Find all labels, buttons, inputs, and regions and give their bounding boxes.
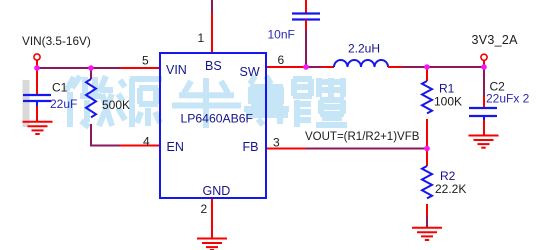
glyph 源 — [118, 79, 162, 127]
capacitor C3 10nF — [292, 0, 320, 30]
ground (IC GND pin) — [197, 239, 227, 250]
pin 2 GND — [211, 198, 213, 238]
ground (C1) — [23, 122, 53, 134]
node VOUT terminal junction — [481, 64, 487, 70]
svg-text:SW: SW — [240, 65, 260, 79]
node VIN junction — [34, 65, 40, 71]
svg-text:4: 4 — [143, 135, 150, 149]
glyph 體 — [293, 78, 347, 127]
terminal VIN circle — [34, 54, 40, 60]
svg-text:3V3_2A: 3V3_2A — [472, 33, 519, 47]
wire C3 bottom lead to SW node — [305, 30, 307, 67]
3V3 terminal lead — [483, 60, 485, 67]
pin 4 EN — [120, 145, 160, 147]
svg-text:22.2K: 22.2K — [435, 182, 466, 196]
svg-text:2: 2 — [201, 202, 208, 216]
resistor R1 — [422, 67, 432, 149]
svg-text:GND: GND — [203, 184, 231, 198]
inductor L1 2.2uH — [321, 60, 402, 67]
svg-text:R2: R2 — [440, 169, 456, 183]
wire R2 bottom to ground — [426, 217, 428, 228]
watermark fragment (gray bar) — [23, 80, 30, 127]
node VOUT-R1 junction — [424, 64, 430, 70]
svg-text:10nF: 10nF — [268, 28, 295, 42]
svg-text:1: 1 — [198, 31, 205, 45]
svg-text:100K: 100K — [434, 95, 462, 109]
pin 3 FB — [266, 148, 306, 150]
wire BS top — [211, 0, 213, 13]
svg-text:LP6460AB6F: LP6460AB6F — [181, 112, 254, 126]
node EN junction — [88, 65, 94, 71]
svg-text:R1: R1 — [439, 82, 455, 96]
svg-text:22uFx 2: 22uFx 2 — [486, 92, 530, 106]
node FB junction — [424, 146, 430, 152]
node SW junction — [303, 64, 309, 70]
svg-text:VIN(3.5-16V): VIN(3.5-16V) — [22, 34, 91, 48]
svg-text:5: 5 — [142, 54, 149, 68]
svg-text:EN: EN — [167, 140, 184, 154]
glyph 半 — [172, 78, 241, 128]
pin 1 BS — [211, 13, 213, 53]
resistor 500K — [86, 79, 96, 117]
terminal 3V3 circle — [481, 54, 487, 60]
ground (C2) — [469, 136, 499, 148]
glyph 微 — [66, 76, 113, 127]
svg-text:VIN: VIN — [166, 63, 187, 77]
glyph 導 — [244, 76, 289, 125]
op-amp U1 LP6460AB6F body — [160, 53, 266, 198]
capacitor C2 — [469, 96, 497, 135]
wire inductor to output node — [402, 66, 484, 68]
capacitor C1 — [23, 95, 51, 122]
pin 5 VIN — [120, 67, 160, 69]
wire EN branch vertical + horizontal — [90, 68, 92, 79]
svg-text:3: 3 — [273, 136, 280, 150]
svg-text:6: 6 — [278, 53, 285, 67]
svg-text:C1: C1 — [52, 81, 68, 95]
wire SW node to inductor — [306, 66, 321, 68]
svg-text:BS: BS — [205, 59, 222, 73]
pin 6 SW — [266, 66, 306, 68]
watermark 微源半導體 (light blue), stylized — [66, 76, 347, 128]
svg-text:2.2uH: 2.2uH — [348, 42, 380, 56]
wire VIN bus (terminal to pin5) — [37, 67, 120, 69]
VIN terminal lead — [36, 60, 38, 95]
svg-text:FB: FB — [243, 140, 259, 154]
svg-text:VOUT=(R1/R2+1)VFB: VOUT=(R1/R2+1)VFB — [305, 131, 420, 143]
svg-text:22uF: 22uF — [50, 97, 77, 111]
ground (R2) — [412, 228, 442, 240]
wire output node down to C2 — [483, 67, 485, 96]
wire FB run — [306, 148, 427, 150]
svg-text:500K: 500K — [102, 98, 130, 112]
resistor R2 — [422, 149, 432, 218]
